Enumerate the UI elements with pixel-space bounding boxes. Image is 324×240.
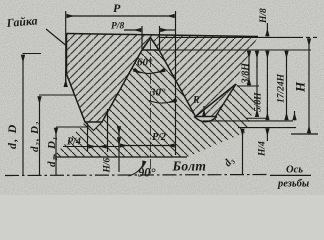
lower plane line right [238,127,296,129]
axis of thread (dash-dot) [5,175,311,176]
left root basic flat with V [85,122,102,131]
nut body (hatched ///) [67,34,259,123]
d3 plane line right [203,120,293,122]
nut tip flat over right root [196,116,216,118]
center line of tooth (dash-dot) [150,40,152,175]
d1 plane line left [56,126,90,128]
P dimension [66,11,176,155]
apex plane line to right [160,36,299,38]
P/4 dimension [63,109,119,152]
crest plane line to right [159,49,311,51]
H/8 dimension top right [266,23,268,58]
bolt body (hatched \\\) [53,50,257,157]
3/8H dimension [248,51,250,85]
d2,D2 dimension [39,96,41,175]
H dimension far right [308,38,310,133]
crest flat [142,49,159,51]
d2,D2 tick [39,94,75,96]
P/2 dimension [120,145,175,147]
apex triangle [142,38,159,50]
d,D dimension [22,55,24,175]
right flank of next tooth [216,84,237,117]
d1,D1 dimension [55,128,57,175]
d3 dimension [242,129,244,175]
rounded bolt root R [194,117,217,122]
d,D tick [23,53,42,55]
pitch plane short line right [237,85,259,87]
H/4 dimension [267,111,294,141]
17/24H dimension [286,51,288,120]
P/8 dimension [124,26,176,49]
H/6 dimension [118,126,120,172]
5/8H dimension [246,51,267,120]
thread profile outline [67,34,237,123]
